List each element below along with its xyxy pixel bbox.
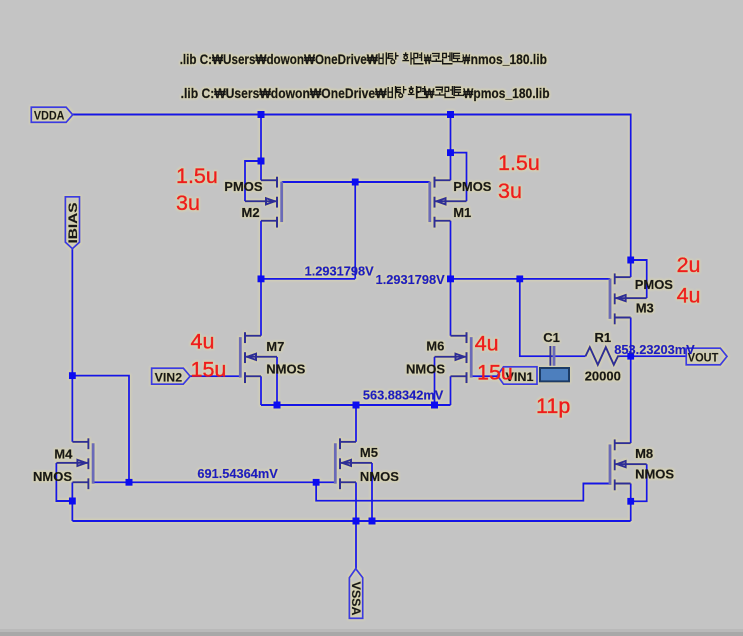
svg-text:M8: M8 bbox=[635, 446, 653, 461]
transistor M8 NMOS bbox=[610, 439, 647, 490]
wire M5 source down bbox=[355, 482, 357, 521]
svg-text:NMOS: NMOS bbox=[406, 362, 445, 377]
node gates rail bbox=[352, 179, 359, 186]
wire M6 source down bbox=[450, 376, 452, 405]
svg-text:VSSA: VSSA bbox=[349, 582, 363, 616]
node 691 IBIAS branch bbox=[126, 479, 133, 486]
node M1 gate tie bbox=[447, 149, 454, 156]
transistor M1 PMOS bbox=[430, 177, 467, 228]
svg-text:11p: 11p bbox=[536, 394, 570, 418]
svg-text:M6: M6 bbox=[426, 338, 444, 353]
transistor M2 PMOS (mirrored) bbox=[245, 177, 282, 228]
wire node 1.2931798V right bbox=[451, 278, 611, 280]
svg-text:3u: 3u bbox=[498, 179, 522, 203]
svg-text:VDDA: VDDA bbox=[34, 109, 65, 123]
node VDDA-M1 bbox=[447, 111, 454, 118]
wire VDDA rail bbox=[73, 115, 631, 278]
svg-text:.lib C:₩Users₩dowon₩OneDrive₩: .lib C:₩Users₩dowon₩OneDrive₩ bbox=[180, 52, 378, 67]
svg-text:NMOS: NMOS bbox=[635, 466, 674, 481]
svg-text:NMOS: NMOS bbox=[266, 362, 305, 377]
wire M7 source down bbox=[260, 376, 262, 405]
label .lib pmos directive bbox=[181, 86, 550, 101]
svg-text:IBIAS: IBIAS bbox=[66, 203, 80, 244]
wire M3 bulk loop bbox=[631, 260, 647, 298]
wire VIN2 to M7 gate bbox=[190, 375, 240, 377]
node tail M6 bulk bbox=[431, 402, 438, 409]
wire 691 node to M8 gate bbox=[316, 482, 610, 500]
transistor M6 NMOS (mirrored) bbox=[435, 332, 472, 383]
flag VSSA bbox=[349, 569, 363, 619]
svg-text:1.5u: 1.5u bbox=[498, 151, 540, 175]
flag VOUT bbox=[686, 348, 727, 365]
node M2 drain bbox=[258, 275, 265, 282]
svg-text:1.2931798V: 1.2931798V bbox=[305, 264, 374, 279]
svg-text:M5: M5 bbox=[360, 445, 378, 460]
svg-text:nmos_180.lib: nmos_180.lib bbox=[471, 52, 547, 67]
wire tail to M5 drain bbox=[355, 405, 357, 442]
node comp tap bbox=[516, 275, 523, 282]
transistor M7 NMOS bbox=[240, 332, 277, 383]
wire M6 bulk stem bbox=[434, 357, 436, 405]
node M4 source-bulk bbox=[69, 498, 76, 505]
wire VSSA rail bbox=[72, 520, 630, 522]
node VSSA-M5bulk bbox=[369, 518, 376, 525]
svg-text:853.23203mV: 853.23203mV bbox=[614, 342, 695, 357]
wire node 691mV M4 gate to M5 gate bbox=[93, 481, 335, 483]
wire tail node 563mV bbox=[261, 404, 451, 406]
svg-text:₩: ₩ bbox=[424, 86, 434, 101]
svg-text:M3: M3 bbox=[636, 300, 654, 315]
svg-text:PMOS: PMOS bbox=[224, 179, 263, 194]
node VOUT bbox=[627, 353, 634, 360]
node IBIAS tap bbox=[69, 372, 76, 379]
svg-text:₩: ₩ bbox=[424, 52, 431, 67]
svg-text:₩: ₩ bbox=[463, 86, 473, 101]
svg-text:R1: R1 bbox=[595, 330, 612, 345]
svg-text:3u: 3u bbox=[176, 191, 200, 215]
svg-text:691.54364mV: 691.54364mV bbox=[197, 466, 278, 481]
node tail M7 bulk bbox=[274, 402, 281, 409]
wire node 1.2931798V left bbox=[261, 278, 355, 280]
svg-text:M4: M4 bbox=[54, 446, 73, 461]
node tail stem bbox=[353, 402, 360, 409]
svg-text:4u: 4u bbox=[677, 284, 701, 308]
wire M7 bulk stem bbox=[276, 357, 278, 405]
svg-text:1.5u: 1.5u bbox=[176, 164, 218, 188]
transistor M3 PMOS bbox=[610, 273, 647, 324]
node M3 bulk tie bbox=[627, 257, 634, 264]
wire M3 drain to M8 drain bbox=[630, 318, 632, 444]
wire PMOS gates rail bbox=[282, 181, 430, 183]
bottom window edge band bbox=[0, 629, 743, 632]
svg-text:PMOS: PMOS bbox=[453, 179, 492, 194]
wire VDDA to M2 source bbox=[260, 115, 262, 181]
wire M2 drain to M7 drain bbox=[260, 221, 262, 336]
svg-text:M1: M1 bbox=[453, 205, 471, 220]
capacitor C1 value box (highlighted) bbox=[540, 368, 569, 381]
svg-text:.lib C:₩Users₩dowon₩OneDrive₩: .lib C:₩Users₩dowon₩OneDrive₩ bbox=[181, 86, 387, 101]
label .lib nmos directive bbox=[180, 52, 547, 67]
svg-text:M2: M2 bbox=[242, 205, 260, 220]
node VSSA-M5 bbox=[353, 518, 360, 525]
svg-text:15u: 15u bbox=[477, 361, 513, 385]
node M1 drain bbox=[447, 275, 454, 282]
transistor M5 NMOS bbox=[335, 438, 372, 489]
svg-text:C1: C1 bbox=[543, 330, 560, 345]
flag VIN1 bbox=[497, 367, 537, 384]
wire to compensation network bbox=[520, 279, 586, 356]
wire IBIAS down to M4 bbox=[71, 249, 73, 442]
node M2 gate tie bbox=[258, 158, 265, 165]
capacitor C1 bbox=[550, 346, 554, 366]
svg-text:15u: 15u bbox=[191, 357, 227, 381]
svg-text:pmos_180.lib: pmos_180.lib bbox=[473, 86, 549, 101]
svg-text:PMOS: PMOS bbox=[635, 277, 674, 292]
svg-text:NMOS: NMOS bbox=[33, 469, 72, 484]
node 691 M8 branch bbox=[313, 479, 320, 486]
wire M1 drain to M6 drain bbox=[450, 221, 452, 336]
wire IBIAS branch to 691 node bbox=[72, 376, 129, 483]
wire M4 bulk return bbox=[56, 463, 72, 501]
transistor M4 NMOS (mirrored) bbox=[56, 438, 93, 489]
wire gate rail stem bbox=[354, 182, 356, 279]
flag IBIAS bbox=[65, 197, 80, 249]
svg-text:4u: 4u bbox=[191, 330, 215, 354]
svg-text:₩: ₩ bbox=[463, 52, 471, 67]
svg-text:1.2931798V: 1.2931798V bbox=[376, 272, 445, 287]
wire M5 bulk stem bbox=[371, 463, 373, 521]
wire M4 source down bbox=[71, 482, 73, 521]
wire VSSA stem bbox=[355, 521, 357, 569]
wire VDDA to M1 source bbox=[450, 115, 452, 181]
wire R1 to VOUT bbox=[620, 355, 686, 357]
svg-text:NMOS: NMOS bbox=[360, 469, 399, 484]
svg-text:563.88342mV: 563.88342mV bbox=[363, 387, 444, 402]
flag VDDA bbox=[31, 107, 72, 122]
svg-text:4u: 4u bbox=[475, 332, 499, 356]
wire M8 bulk return bbox=[631, 464, 647, 501]
wire M2 bulk loop bbox=[245, 161, 261, 201]
wire M1 bulk loop bbox=[451, 153, 467, 202]
wire VIN1 to M6 gate bbox=[471, 375, 497, 377]
svg-text:M7: M7 bbox=[266, 339, 284, 354]
svg-text:20000: 20000 bbox=[585, 368, 621, 383]
node M8 source-bulk bbox=[627, 498, 634, 505]
svg-text:2u: 2u bbox=[677, 253, 701, 277]
flag VIN2 bbox=[152, 368, 191, 384]
svg-text:VIN2: VIN2 bbox=[155, 370, 183, 384]
wire M8 source down bbox=[630, 484, 632, 522]
resistor R1 bbox=[586, 347, 621, 365]
node VDDA-M2 bbox=[258, 111, 265, 118]
